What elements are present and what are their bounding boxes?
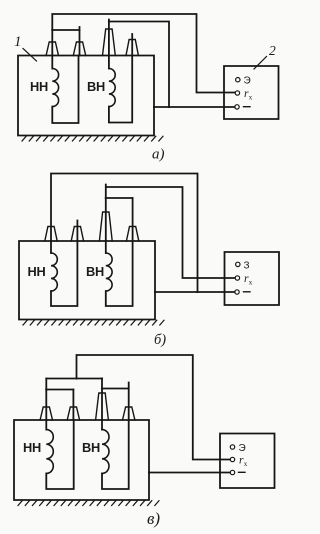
megohmmeter box (b) — [225, 252, 280, 305]
svg-text:Э: Э — [244, 76, 251, 87]
wire HH to device (a) — [52, 14, 235, 93]
pin bushing3 (v) — [101, 379, 103, 421]
terminal rx (a) — [235, 91, 239, 95]
svg-text:ВН: ВН — [87, 79, 105, 94]
svg-text:х: х — [249, 93, 253, 101]
label 1 pointer (a) — [23, 49, 37, 62]
bushing 3 (a) tall — [103, 29, 116, 56]
pin bushing1 (v) — [45, 379, 47, 421]
wire B b1-b2 (v) — [46, 389, 73, 391]
terminal E (v) — [230, 445, 234, 449]
terminal rx (b) — [235, 276, 239, 280]
transformer tank (v) — [14, 420, 149, 500]
bushing 4 (v) — [123, 407, 135, 420]
pin stub bushing2 (b) — [76, 221, 78, 242]
bushing 2 (a) — [73, 42, 85, 56]
winding HH (b) — [50, 241, 52, 253]
wire BH short (b) — [106, 197, 133, 199]
svg-text:ВН: ВН — [82, 440, 100, 455]
svg-text:ВН: ВН — [86, 264, 104, 279]
svg-text:НН: НН — [30, 79, 48, 94]
svg-text:а): а) — [152, 147, 165, 163]
winding BH (v) — [101, 420, 103, 430]
wire A b1-b3 (v) — [46, 378, 102, 380]
megohmmeter box (a) — [224, 66, 279, 119]
ground hatching (v) — [18, 501, 159, 506]
winding HH (v) — [45, 420, 47, 430]
svg-text:2: 2 — [269, 43, 276, 58]
bushing 3 (b) tall — [99, 212, 112, 241]
svg-text:Э: Э — [239, 443, 246, 454]
bushing 2 (b) — [71, 227, 83, 242]
terminal minus (a) — [235, 105, 239, 109]
pin bushing4 (v) — [128, 383, 130, 421]
bushing 1 (a) — [46, 42, 58, 56]
bushing 4 (a) — [126, 40, 138, 56]
svg-text:З: З — [244, 260, 250, 271]
svg-text:б): б) — [154, 332, 166, 348]
svg-text:НН: НН — [23, 440, 41, 455]
wire C b3-b4 (v) — [102, 388, 129, 390]
wire to device (v) — [77, 355, 230, 460]
winding BH (b) — [105, 241, 107, 253]
transformer tank (b) — [19, 241, 155, 320]
svg-text:х: х — [244, 460, 248, 468]
bushing 2 (v) — [67, 407, 79, 420]
winding BH (a) — [108, 56, 110, 69]
ground hatching (a) — [22, 136, 163, 141]
ground hatching (b) — [23, 320, 164, 325]
transformer tank (a) — [18, 56, 154, 136]
svg-text:НН: НН — [28, 264, 46, 279]
bushing 4 (b) — [126, 227, 138, 242]
pin bushing2 (a) — [79, 27, 81, 56]
svg-text:1: 1 — [14, 34, 22, 50]
megohmmeter box (v) — [220, 434, 275, 489]
svg-text:х: х — [249, 278, 253, 286]
winding HH (a) — [51, 56, 53, 69]
pin stub bushing4 (a) — [131, 34, 133, 56]
wire HH to device (b) — [51, 174, 198, 293]
wire tank to device (v) — [149, 472, 230, 474]
terminal E (a) — [236, 78, 240, 82]
pin bushing4 (b) — [132, 198, 134, 241]
terminal E (b) — [236, 262, 240, 266]
svg-text:в): в) — [147, 509, 160, 528]
bushing 3 (v) tall — [96, 393, 109, 420]
wire tank to device (a) — [154, 106, 235, 108]
wire HH short (a) — [52, 29, 79, 31]
wire BH to device (b) — [106, 185, 235, 279]
pin bushing2 (v) — [72, 390, 74, 421]
wire BH down (a) — [109, 20, 169, 108]
terminal rx (v) — [230, 457, 234, 461]
bushing 1 (v) — [40, 407, 52, 420]
terminal minus (v) — [230, 470, 234, 474]
terminal minus (b) — [235, 290, 239, 294]
wire tank to device (b) — [155, 291, 235, 293]
bushing 1 (b) — [45, 227, 57, 242]
label 2 pointer (a) — [254, 57, 267, 70]
